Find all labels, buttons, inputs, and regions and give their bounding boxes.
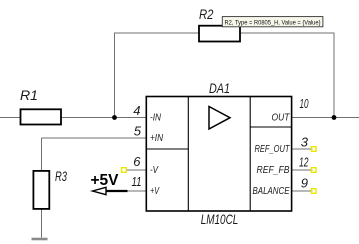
svg-text:3: 3 (301, 135, 309, 150)
wire node A vertical riser (114, 33, 116, 118)
svg-text:11: 11 (132, 174, 142, 189)
wire output riser vertical (333, 33, 335, 118)
svg-text:R2, Type = R0805_H, Value = {V: R2, Type = R0805_H, Value = {Value} (225, 19, 322, 26)
svg-text:OUT: OUT (272, 113, 291, 124)
svg-text:REF_OUT: REF_OUT (255, 144, 291, 155)
node junction at output (332, 115, 337, 120)
tooltip value label of R2 (222, 17, 323, 27)
node junction at -IN input (112, 115, 117, 120)
svg-text:-IN: -IN (150, 113, 162, 124)
svg-text:R3: R3 (55, 168, 67, 184)
svg-text:12: 12 (299, 155, 309, 170)
resistor R1 (21, 109, 62, 124)
wire pin 6 (-V) (126, 169, 146, 171)
wire input to R1 left (0, 117, 20, 119)
unconnected pin marker pin 3 (311, 147, 316, 152)
resistor R3 (33, 171, 49, 209)
svg-text:R2: R2 (199, 6, 214, 22)
wire R2 right to output riser (240, 32, 335, 34)
wire OUT pin 10 to right edge (292, 117, 359, 119)
power +5V arrowhead (93, 187, 107, 194)
ground (32, 238, 48, 241)
resistor R2 (199, 26, 240, 42)
wire pin 9 (BALANCE) (292, 190, 313, 192)
wire pin 11 (+V) (127, 190, 147, 192)
svg-text:+5V: +5V (91, 172, 119, 189)
wire R1 right to pin 4 (-IN) (62, 117, 147, 119)
svg-text:LM10CL: LM10CL (201, 211, 239, 227)
svg-text:10: 10 (300, 96, 309, 111)
svg-text:BALANCE: BALANCE (253, 186, 290, 197)
svg-text:+IN: +IN (150, 133, 164, 144)
wire pin 5 (+IN) (42, 137, 147, 139)
unconnected pin marker pin 9 (311, 189, 316, 194)
wire pin 12 (REF_FB) (292, 169, 313, 171)
power +5V arrow shaft (105, 190, 128, 192)
svg-text:9: 9 (301, 176, 308, 191)
svg-text:4: 4 (133, 103, 140, 118)
wire down to R3 top (41, 138, 43, 171)
wire top feedback to R2 left (114, 32, 199, 34)
svg-text:R1: R1 (20, 87, 38, 103)
svg-text:5: 5 (134, 124, 142, 139)
op-amp triangle symbol (209, 107, 230, 130)
unconnected pin marker pin 6 (122, 168, 127, 173)
svg-text:+V: +V (150, 186, 160, 197)
svg-text:DA1: DA1 (209, 80, 230, 96)
wire pin 3 (REF_OUT) (292, 148, 313, 150)
unconnected pin marker pin 12 (311, 168, 316, 173)
wire R3 bottom to ground (41, 209, 43, 238)
svg-text:REF_FB: REF_FB (257, 165, 290, 176)
svg-text:-V: -V (150, 165, 159, 176)
op-amp U1 body DA1 (146, 97, 291, 212)
svg-text:6: 6 (133, 154, 141, 169)
